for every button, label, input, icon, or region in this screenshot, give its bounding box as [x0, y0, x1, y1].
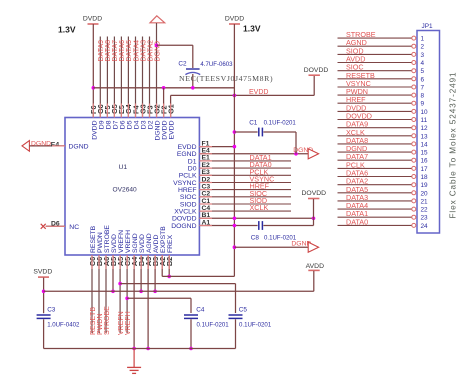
wire DATA3 to pin G3 [140, 37, 147, 118]
svg-text:13: 13 [421, 133, 429, 140]
svg-text:22: 22 [421, 207, 429, 214]
wire DATA6 to pin E5 [119, 37, 126, 118]
wire EVDD: pin G1 up and across to DOVDD symbol [171, 75, 315, 117]
capacitor C1 0.1UF-0201 [233, 120, 297, 154]
wire PCLK from pin E3 [199, 167, 291, 176]
svg-text:E4: E4 [51, 141, 60, 148]
svg-text:0.1UF-0201: 0.1UF-0201 [197, 322, 230, 329]
svg-text:PCLK: PCLK [179, 173, 197, 180]
U1 top pin names DVDD..EVDD [91, 120, 175, 140]
svg-text:C1: C1 [249, 120, 258, 127]
svg-text:1.0UF-0402: 1.0UF-0402 [47, 322, 80, 329]
wire DGND to JP1 pin 15 [338, 144, 416, 154]
svg-text:2: 2 [421, 44, 425, 51]
svg-text:VREFN: VREFN [118, 311, 125, 335]
wire SIOC to JP1 pin 5 [338, 63, 416, 73]
no-connect X on pin D6 (NC) [41, 220, 80, 231]
svg-text:23: 23 [421, 215, 429, 222]
wire DATA8 to pin F5 [105, 37, 112, 118]
svg-text:DATA5: DATA5 [126, 40, 133, 62]
svg-text:5: 5 [421, 68, 425, 75]
U1 right pin numbers F1..A1 [202, 140, 211, 226]
wire SGND pin A4 to ground rail [132, 255, 136, 350]
svg-text:C5: C5 [239, 307, 248, 314]
svg-text:DATA2: DATA2 [147, 40, 154, 62]
capacitor C5 0.1UF-0201 [229, 307, 272, 349]
wire PWDN to JP1 pin 8 [338, 87, 416, 97]
JP1 pin numbers 1-24 [421, 36, 429, 230]
svg-text:EXPSTB: EXPSTB [160, 226, 167, 253]
power symbol DOVDD (lower) [302, 190, 327, 218]
svg-text:DOVDD: DOVDD [304, 67, 329, 74]
wire DATA3 to JP1 pin 21 [338, 193, 416, 203]
note Flex Cable To Molex 52437-2491 [449, 71, 458, 218]
wire DATA7 to pin G5 [112, 37, 119, 118]
wire DATA9 to JP1 pin 12 [338, 120, 416, 130]
wire SIOD to JP1 pin 3 [338, 46, 416, 56]
svg-text:20: 20 [421, 190, 429, 197]
svg-text:JP1: JP1 [422, 23, 433, 30]
svg-text:D2: D2 [148, 120, 155, 129]
power symbol AVDD [306, 263, 324, 291]
wire DGND triangle to pin G2, junction, branch to C2 [154, 23, 193, 118]
wire ground rail [44, 348, 236, 350]
svg-text:SVDD: SVDD [33, 268, 52, 275]
svg-text:SVDD: SVDD [111, 234, 118, 253]
svg-text:15: 15 [421, 150, 429, 157]
power symbol DVDD (top left) [83, 16, 102, 25]
svg-text:4: 4 [421, 60, 425, 67]
U1 right pin stubs [199, 147, 212, 226]
svg-text:DOVDD: DOVDD [302, 190, 327, 197]
wire DATA0 from pin E2 [199, 160, 291, 169]
svg-text:C8: C8 [251, 234, 260, 241]
capacitor C4 0.1UF-0201 [184, 307, 229, 351]
wire DOVDD to JP1 pin 11 [338, 112, 416, 122]
off-page connector DGND (EGND row) [308, 149, 318, 159]
svg-text:1.3V: 1.3V [243, 24, 261, 34]
wire VREFH from pin C5 [125, 255, 132, 335]
svg-text:XCLK: XCLK [250, 203, 269, 212]
svg-text:AVDD: AVDD [153, 235, 160, 253]
svg-text:D0: D0 [188, 166, 197, 173]
wire SIOC from pin C2 [199, 189, 291, 198]
wire EVDD pin F1 to trunk [199, 145, 236, 149]
wire DATA9 to pin G6 [98, 37, 105, 118]
wire DATA7 to JP1 pin 16 [338, 152, 416, 162]
svg-text:STROBE: STROBE [104, 225, 111, 253]
svg-text:3: 3 [421, 52, 425, 59]
svg-text:EVDD: EVDD [169, 120, 176, 139]
wire VREFN from pin A5 [118, 255, 125, 335]
svg-text:0.1UF-0201: 0.1UF-0201 [239, 322, 272, 329]
svg-text:24: 24 [421, 223, 429, 230]
op IC U1 OV2640 body [65, 118, 199, 256]
svg-text:6: 6 [421, 76, 425, 83]
U1 top pin stubs [93, 104, 170, 118]
wire DATA4 to pin F4 [133, 37, 140, 118]
wire DVDD to JP1 pin 10 [338, 103, 416, 113]
svg-text:12: 12 [421, 125, 429, 132]
wire SIOD from pin C1 [199, 196, 291, 205]
U1 bottom pin names RESETB..FREX [90, 225, 174, 253]
voltage note 1.3V (left) [58, 25, 76, 35]
svg-text:8: 8 [421, 93, 425, 100]
svg-text:7: 7 [421, 85, 425, 92]
wire HREF to JP1 pin 9 [338, 95, 416, 105]
svg-text:0.1UF-0201: 0.1UF-0201 [264, 120, 297, 127]
svg-text:SVDD: SVDD [139, 234, 146, 253]
svg-text:DVDD: DVDD [91, 120, 98, 139]
svg-text:17: 17 [421, 166, 429, 173]
svg-text:AVDD: AVDD [306, 263, 324, 270]
connector JP1 body (Flex Cable To Molex 52437-2491) [417, 23, 440, 233]
svg-text:D7: D7 [112, 120, 119, 129]
U1 bottom pin stubs [92, 255, 169, 269]
wire PWDN from pin B6 [97, 255, 104, 335]
svg-text:C2: C2 [178, 61, 187, 68]
svg-text:9: 9 [421, 101, 425, 108]
wire VREFH line D to C4 [127, 298, 191, 313]
wire STROBE from pin A6 [104, 255, 111, 335]
wire EXPSTB pin A2 down to DGND line [161, 255, 163, 276]
svg-text:DATA4: DATA4 [133, 40, 140, 62]
wire DATA4 to JP1 pin 22 [338, 201, 416, 211]
svg-text:DVDD: DVDD [225, 16, 244, 23]
svg-text:OV2640: OV2640 [113, 187, 138, 194]
wire DVDD/EVDD vertical trunk [233, 24, 235, 276]
svg-text:18: 18 [421, 174, 429, 181]
svg-text:RESETB: RESETB [90, 307, 97, 335]
wire AVDD to JP1 pin 4 [338, 55, 416, 65]
svg-text:SGND: SGND [132, 233, 139, 253]
wire HREF from pin C3 [199, 182, 291, 191]
power symbol DGND triangle (net DGND) [150, 16, 165, 23]
svg-text:1: 1 [421, 36, 425, 43]
svg-text:10: 10 [421, 109, 429, 116]
svg-text:DATA8: DATA8 [105, 40, 112, 62]
wire AGND pin A3 to ground rail [146, 255, 150, 350]
svg-text:FREX: FREX [167, 234, 174, 253]
wire XCLK from pin C4 [199, 203, 291, 212]
wire VREFN line C to C5 [120, 284, 235, 313]
wire PCLK to JP1 pin 17 [338, 160, 416, 170]
svg-text:VREFH: VREFH [125, 311, 132, 335]
svg-text:PWDN: PWDN [97, 314, 104, 335]
svg-text:D1: D1 [188, 158, 197, 165]
wire SVDD pin B4 to rail [139, 255, 143, 293]
svg-text:C4: C4 [196, 307, 205, 314]
wire DATA1 from pin E1 [199, 153, 291, 162]
wire DATA2 to pin F3 [147, 37, 154, 118]
svg-text:19: 19 [421, 182, 429, 189]
svg-text:DGND: DGND [31, 140, 51, 147]
svg-text:NEC(TEESVJ0J475M8R): NEC(TEESVJ0J475M8R) [179, 74, 273, 83]
U1 bottom pin numbers C6..B2 [88, 256, 174, 266]
svg-text:RESETB: RESETB [90, 225, 97, 253]
svg-text:DATA6: DATA6 [119, 40, 126, 62]
svg-text:DATA9: DATA9 [98, 40, 105, 62]
svg-text:DATA3: DATA3 [140, 40, 147, 62]
svg-text:DOVDD: DOVDD [172, 216, 197, 223]
svg-text:14: 14 [421, 141, 429, 148]
capacitor C3 1.0UF-0402 [37, 307, 80, 349]
power symbol DVDD (second, 1.3V) [225, 16, 244, 25]
wire FREX pin B2 down to DGND line [167, 255, 171, 278]
U1 top pin numbers F6..G1 [89, 103, 175, 114]
svg-text:DGND: DGND [69, 143, 89, 150]
wire DATA5 to pin G4 [126, 37, 133, 118]
svg-text:SIOD: SIOD [180, 201, 197, 208]
power symbol SVDD [33, 268, 52, 313]
svg-text:D8: D8 [105, 120, 112, 129]
svg-text:11: 11 [421, 117, 428, 124]
svg-text:DGND: DGND [155, 120, 162, 140]
voltage note 1.3V (right) [243, 24, 261, 34]
svg-text:D5: D5 [126, 120, 133, 129]
svg-text:DVDD: DVDD [83, 16, 102, 23]
wire DGND line A (EXPSTB/FREX to trunk) [162, 275, 234, 277]
ground symbol [127, 349, 141, 374]
svg-text:AGND: AGND [146, 233, 153, 253]
wire RESETB to JP1 pin 6 [338, 71, 416, 81]
svg-text:4.7UF-0603: 4.7UF-0603 [200, 61, 233, 68]
wire XCLK to JP1 pin 13 [338, 128, 416, 138]
svg-text:EGND: EGND [177, 151, 197, 158]
wire DATA5 to JP1 pin 20 [338, 185, 416, 195]
svg-text:Flex Cable To Molex 52437-2491: Flex Cable To Molex 52437-2491 [449, 71, 458, 218]
capacitor C8 0.1UF-0201 (in DOGND/A1 row) [199, 218, 313, 241]
svg-text:EVDD: EVDD [249, 89, 268, 96]
off-page connector DGND (lower) [308, 242, 318, 252]
svg-text:EVDD: EVDD [178, 144, 197, 151]
wire DATA1 to JP1 pin 23 [338, 209, 416, 219]
svg-text:1.3V: 1.3V [58, 25, 76, 35]
svg-text:XVCLK: XVCLK [174, 209, 197, 216]
svg-text:C3: C3 [47, 307, 56, 314]
U1 right pin names EVDD..DOGND [171, 144, 197, 230]
svg-text:D6: D6 [119, 120, 126, 129]
svg-text:16: 16 [421, 158, 429, 165]
wire SVDD/AVDD rail [44, 290, 314, 292]
wire DOVDD pin B1 [199, 217, 315, 221]
power symbol DOVDD (upper) [304, 67, 329, 75]
U1 left pin stubs [46, 146, 65, 226]
capacitor C2 4.7UF-0603 (polarized) [178, 61, 273, 88]
svg-text:DATA7: DATA7 [112, 40, 119, 62]
svg-text:D4: D4 [134, 120, 141, 129]
svg-text:VSYNC: VSYNC [173, 180, 197, 187]
wire DVDD bus (horizontal) [93, 86, 234, 90]
wire AVDD pin B3 to rail [153, 255, 157, 293]
wire AGND to JP1 pin 2 [338, 38, 416, 48]
wire STROBE to JP1 pin 1 [338, 30, 416, 40]
svg-text:VREFH: VREFH [125, 230, 132, 253]
wire DATA2 to JP1 pin 19 [338, 177, 416, 187]
svg-text:HREF: HREF [178, 187, 197, 194]
svg-text:PWDN: PWDN [97, 232, 104, 253]
off-page connector DGND (left) to pin E4 [22, 140, 89, 151]
svg-text:DATA0: DATA0 [346, 217, 368, 226]
wire VSYNC to JP1 pin 7 [338, 79, 416, 89]
svg-text:NC: NC [69, 224, 79, 231]
wire DGND stub from trunk [233, 241, 312, 249]
wire DVDD pin F2 to bus [163, 88, 165, 118]
svg-text:DOGND: DOGND [171, 223, 196, 230]
wire SVDD pin B5 to rail [111, 255, 115, 293]
wire RESETB from pin C6 [90, 255, 97, 335]
wire EGND pin E4 to off-page DGND [199, 147, 313, 156]
svg-text:21: 21 [421, 198, 429, 205]
svg-text:VREFN: VREFN [118, 230, 125, 253]
svg-text:DVDD: DVDD [162, 120, 169, 139]
wire DATA6 to JP1 pin 18 [338, 169, 416, 179]
wire VSYNC from pin D2 [199, 175, 291, 184]
wire DATA0 to JP1 pin 24 [338, 217, 416, 227]
svg-text:STROBE: STROBE [104, 306, 111, 335]
svg-text:D3: D3 [141, 120, 148, 129]
svg-text:U1: U1 [119, 164, 128, 171]
svg-text:D9: D9 [98, 120, 105, 129]
wire DATA8 to JP1 pin 14 [338, 136, 416, 146]
svg-text:SIOC: SIOC [180, 194, 197, 201]
wire DVDD from symbol to pin F6 [92, 24, 96, 118]
